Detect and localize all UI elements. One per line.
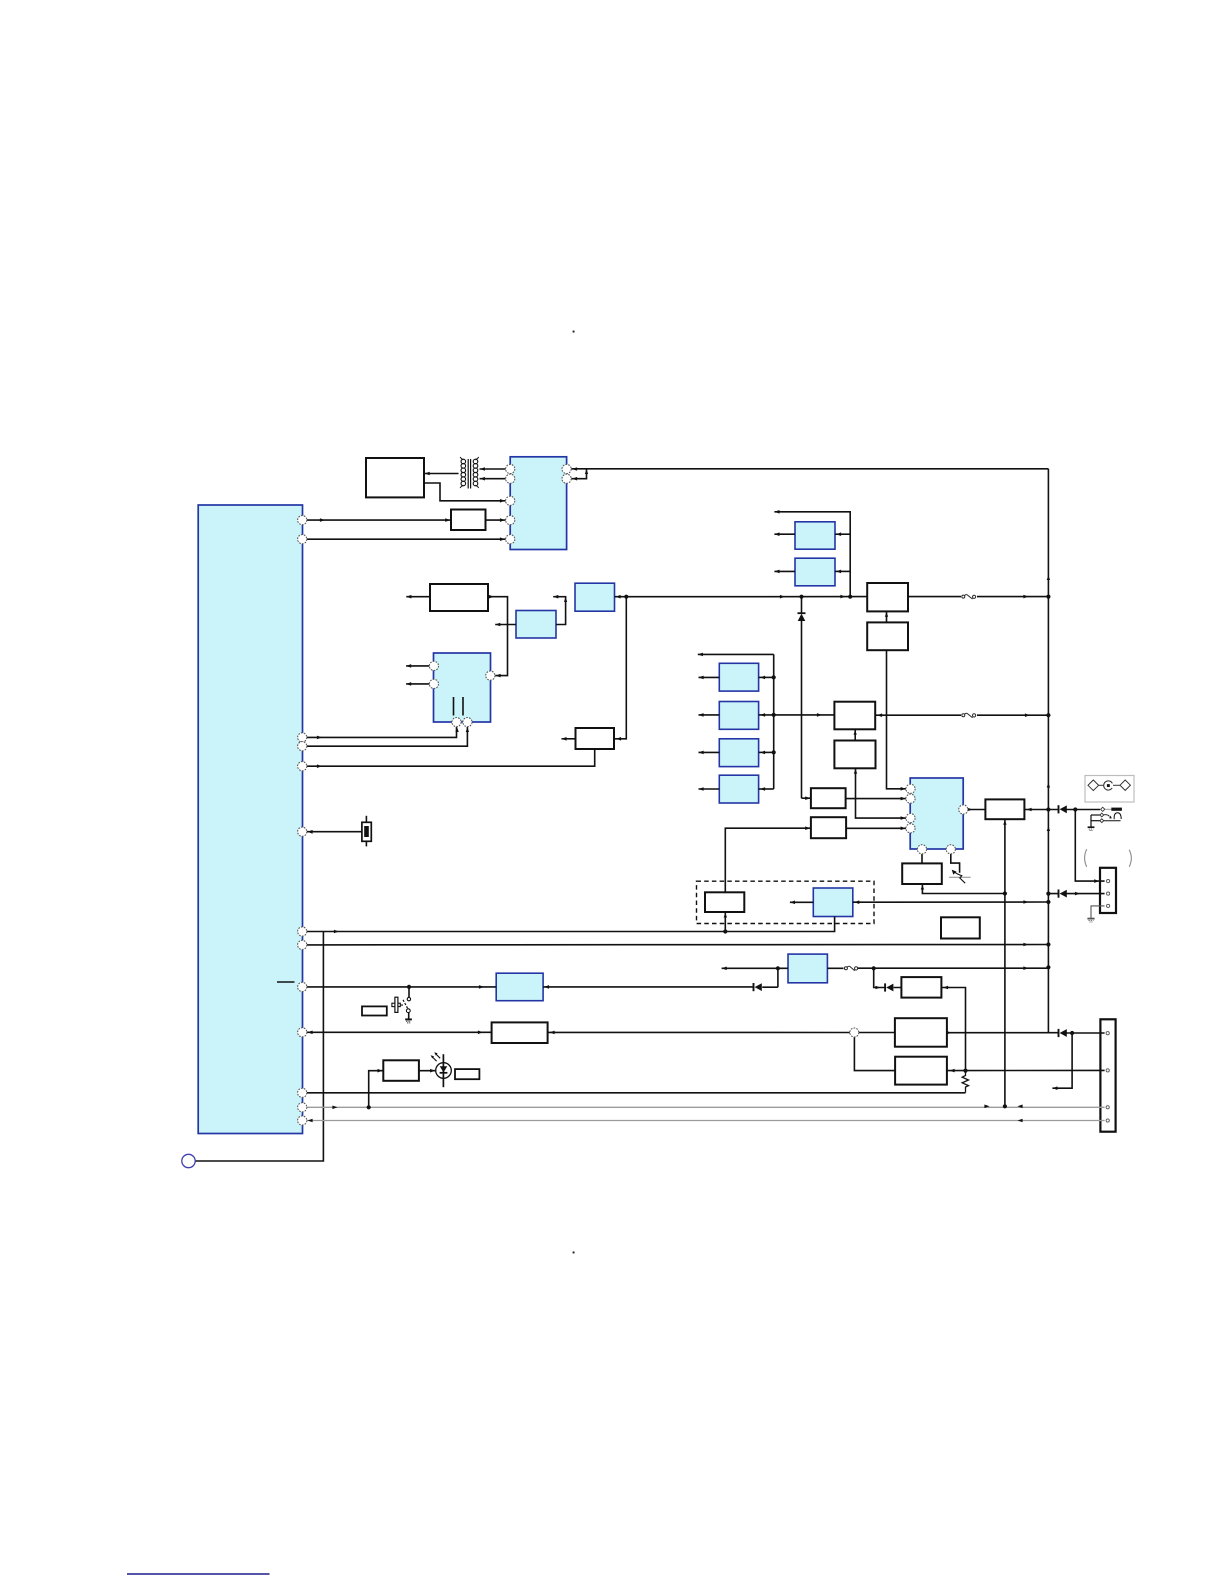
pin U4-B1 [917, 845, 926, 854]
wire WX to jack row [1024, 809, 1100, 811]
wire U1 row746 to U3 bottom pin2 [307, 727, 468, 746]
wire A1 to A2 [556, 597, 566, 625]
wire WX bottom riser [1004, 819, 1006, 1106]
pin U1-4 [298, 742, 307, 751]
arrow into transformer from U2 pin2 [480, 477, 485, 481]
white box WS [362, 1006, 387, 1015]
diode D1 (on vertical, pointing up) [798, 613, 806, 621]
wire switch branch [408, 987, 410, 997]
wire G2 left stub [774, 570, 795, 572]
pin U3-B2 [463, 718, 472, 727]
wire W4 left stub [562, 738, 576, 740]
arrow up into A2 wire [564, 597, 567, 602]
arrow up into WE bottom link [885, 612, 888, 617]
wire grey CN2 pin3 to ground [1091, 906, 1105, 918]
wire B1 right [759, 676, 774, 678]
wire pin U2-L1 to transformer [480, 468, 506, 470]
arrow into transformer from U2 pin1 [480, 467, 485, 471]
arrowheads [308, 467, 1100, 1122]
wire W1 to U2 pin3 [424, 483, 506, 501]
wire U1 row737 to U3 bottom pin1 [307, 727, 457, 738]
arrow into U4 pin1 [901, 787, 906, 791]
wire WY bottom to riser [922, 884, 1005, 894]
arrow into W2 [445, 518, 450, 522]
arrow left stub B3 [699, 751, 704, 755]
arrow on U1 L1-bottom wire [334, 930, 339, 934]
jack J2 plug symbol (top) [1101, 807, 1122, 811]
arrow to rail N1 row [1023, 966, 1028, 970]
arrow on grey wire 1 [332, 1106, 337, 1110]
white box WW [455, 1069, 479, 1079]
stray mark inside U1 [277, 981, 295, 983]
arrow into U2 right pin2 [572, 477, 577, 481]
arrow up into WA bottom link [854, 730, 857, 735]
wire WI to U4 pin2 [846, 798, 907, 800]
amp block A1 (cyan) [516, 611, 556, 639]
pin U3-R1 [486, 671, 495, 680]
pin U1-12 [298, 1103, 307, 1112]
wire WB to U4 pin3 [856, 768, 907, 818]
switch S1 with plug-detect cross [392, 997, 412, 1023]
wire WA-WB link [854, 729, 856, 740]
junction dots [367, 595, 1078, 1110]
CN2 pin circles [1107, 880, 1110, 908]
wire WA to rail (break) [875, 714, 1048, 716]
arrow on grey wire 2 mid [1018, 1119, 1023, 1123]
U3 left stubs [406, 666, 429, 684]
wire top rail horizontal [571, 468, 1048, 470]
arrow into U2 right pin1 [572, 467, 577, 471]
pin U3-L1 [429, 661, 438, 670]
arrow to rail row1 [1023, 595, 1028, 599]
arrow up into WX bottom [1003, 820, 1006, 825]
pin U1-11 [298, 1088, 307, 1097]
wire U4 right pin to WX [968, 809, 986, 811]
arrow into U1 pin WU row [308, 1031, 313, 1035]
blue footer line [127, 1573, 270, 1575]
wire WR to CN1 pin2 [947, 1069, 1105, 1071]
arrow into U4 pin2 [901, 797, 906, 801]
wire U1 pin to W2 [307, 519, 451, 521]
arrow on U1-W2 wire near pin [320, 518, 325, 522]
IC U4 (audio DSP block) [910, 778, 963, 849]
arrow into U3 right pin [496, 674, 501, 678]
white box WM (in dashed area) [705, 892, 744, 912]
white box WJ [811, 817, 846, 838]
wire WE to rail (break) [908, 596, 1048, 598]
arrow into U4 pin4 [901, 827, 906, 831]
wire L1 to rail [853, 901, 1049, 903]
white box WU [492, 1022, 548, 1043]
arrow hook stub left [1052, 1086, 1057, 1090]
registration dot bottom [573, 1252, 575, 1254]
diode D6 (CN1 row, pointing left) [1059, 1029, 1067, 1037]
arrow left stub L1 [790, 901, 795, 905]
arrow into T1 right [544, 985, 549, 989]
wire WP right to riser [941, 988, 965, 1071]
arrow corner WP branch [875, 986, 880, 990]
arrow at WX output [1027, 808, 1032, 812]
arrow on grey wire 1 mid [984, 1105, 989, 1109]
wire jack branch down to CN2 pin1 [1075, 810, 1104, 882]
arrow up into U3 bottom pin1 [455, 728, 458, 733]
arrow out of W3 [489, 595, 494, 599]
arrow up on rail [1047, 576, 1050, 581]
arrow into WA [877, 713, 882, 717]
block G2 (cyan) [795, 558, 835, 586]
pin U3-B1 [452, 718, 461, 727]
wire U1 row766 to W4 [307, 749, 595, 766]
white box WI [811, 788, 846, 808]
wire U1 to T1 [307, 986, 497, 988]
arrow into L1 right [854, 900, 859, 904]
wire switch to ground [408, 1012, 410, 1019]
arrow into CN2 pin1 [1094, 879, 1099, 883]
diode D2 (jack feed, pointing left) [1059, 805, 1067, 813]
wire B-group top stub [698, 653, 774, 655]
parentheses marks [1085, 849, 1132, 867]
white box WV [383, 1060, 419, 1081]
squiggle break symbols [844, 595, 975, 971]
arrow left stub B1 [699, 676, 704, 680]
pin U1-1 [298, 516, 307, 525]
block B2 (cyan) [719, 702, 758, 730]
arrow into WJ [805, 826, 810, 830]
white box WF [867, 622, 908, 650]
wire WE-WF link [886, 611, 888, 622]
arrow up at rail joint [585, 470, 588, 475]
wire branch to WP via diode [874, 968, 902, 987]
pin U1-3 [298, 733, 307, 742]
pin U1-13 [298, 1116, 307, 1125]
arrow on CN2 pin2 wire [1075, 892, 1080, 896]
IC U2 (top block) [510, 457, 566, 550]
arrow into B1 [760, 676, 765, 680]
wire G1 left stub [774, 533, 795, 535]
arrow into U1 crystal pin [308, 830, 313, 834]
pin U4-L2 [906, 794, 915, 803]
pin U2-L2 [506, 474, 515, 483]
pin U4-L1 [906, 784, 915, 793]
legend key box [1085, 776, 1134, 803]
wire T1 right to diode [543, 968, 778, 987]
jack J3 symbol (lower, with lever) [1088, 813, 1122, 831]
white box W3 [430, 584, 488, 611]
arrow left stub W4 [562, 737, 567, 741]
pin U2-R1 [562, 464, 571, 473]
wire A2 to WE [615, 596, 868, 598]
wire diode branch vertical [802, 597, 811, 799]
wire W4 right feed [614, 597, 626, 739]
arrow up into WB bottom [854, 769, 857, 774]
arrow at rail L1 row [1023, 900, 1028, 904]
pin U4-L3 [906, 814, 915, 823]
IC U1 (system controller, main block) [198, 505, 302, 1134]
arrow on grey wire 1 mid2 [1018, 1105, 1023, 1109]
white box WX [985, 799, 1024, 819]
wire corner to WJ [725, 828, 811, 892]
arrow into B3 [760, 751, 765, 755]
arrow into U2 pin3 [500, 499, 505, 503]
wire junction circle to WQ [859, 1032, 895, 1034]
white box W2 [451, 510, 486, 531]
arrow into U4 pin3 [901, 816, 906, 820]
wire rail to CN2 pin2 (diode row) [1048, 893, 1104, 895]
pin U1-2 [298, 535, 307, 544]
crystal X1 [362, 816, 371, 847]
arrow up on rail upper [1047, 783, 1050, 788]
wire WM vertical link [724, 912, 726, 932]
wire U1 to R1 [307, 1092, 966, 1094]
arrow left stub B top [698, 653, 703, 657]
arrow into WV [378, 1069, 383, 1073]
wire U1 pin to U2 pin5 [307, 538, 506, 540]
wire WU to junction circle [548, 1031, 850, 1033]
pin U1-5 [298, 762, 307, 771]
wire WV to LED [419, 1070, 436, 1072]
wire W3 left stub [406, 596, 430, 598]
white box WE [867, 583, 908, 611]
wire U4 bottom pin1 to WY [921, 854, 923, 864]
white box WR [895, 1057, 947, 1085]
wire WQ to CN1 pin1 (diode row) [947, 1032, 1105, 1034]
arrow on U1-T1 wire [479, 985, 484, 989]
arrow left stub W3 [406, 595, 411, 599]
IC U3 (servo block) [434, 653, 491, 722]
arrow left stub G2 [774, 570, 779, 574]
arrow mid WU row [478, 1031, 483, 1035]
arrow into U2 pin4 [500, 518, 505, 522]
arrow up on rail lower [1047, 827, 1050, 832]
arrow into U1 grey pin2 [308, 1119, 313, 1123]
wire W1 to transformer [424, 473, 459, 475]
wire B4 right [759, 788, 774, 790]
pin U1-10 [298, 1028, 307, 1037]
break symbol on N1-rail wire [844, 966, 857, 970]
pin U1-7 [298, 927, 307, 936]
arrow into G2 [836, 570, 841, 574]
wire grey U1 to CN1 pin4 [307, 1120, 1105, 1122]
pin U4-R1 [959, 805, 968, 814]
wire B3 left stub [699, 751, 720, 753]
arrow out of U4 right pin [967, 808, 972, 812]
pin U2-R2 [562, 474, 571, 483]
break symbol on WA-rail wire [962, 713, 976, 717]
white box WA [834, 702, 875, 730]
arrow left stub B4 [699, 787, 704, 791]
white box W4 [576, 728, 615, 749]
arrow into B2 [760, 713, 765, 717]
white box WY [902, 863, 942, 884]
wire G2 right [835, 570, 850, 572]
block B3 (cyan) [719, 739, 758, 767]
arrow to rail bus row [1023, 943, 1028, 947]
arrow left stub N1 [722, 967, 727, 971]
pin U2-L5 [506, 535, 515, 544]
arrow left stub G bus [774, 510, 779, 514]
pin U1-9 [298, 982, 307, 991]
wire B4 left stub [699, 788, 720, 790]
transformer T901 [460, 457, 479, 489]
pin U3-L2 [429, 679, 438, 688]
wires: black nets [195, 469, 1104, 1161]
pin U2-L4 [506, 516, 515, 525]
diode D5 (WP row, pointing left) [885, 983, 893, 991]
pin U1-8 [298, 940, 307, 949]
pin circles U1 [298, 464, 968, 1125]
block B4 (cyan) [719, 775, 758, 803]
pin U1-6 [298, 827, 307, 836]
arrow into W4 right [616, 737, 621, 741]
arrow up into WM bottom [724, 913, 727, 918]
wire stub at A2 input [553, 596, 566, 598]
arrow into WP right [943, 986, 948, 990]
wire WF to U4 pin1 [887, 650, 907, 789]
wire A1 left stub [495, 624, 516, 626]
wire U4 bottom pin2 jog [951, 854, 960, 873]
grey wires [307, 906, 1105, 1121]
wire diode hook stub [1052, 1033, 1072, 1088]
arrow into U2 pin5 [500, 537, 505, 541]
wire L1 bottom to U1 [307, 917, 835, 932]
wire U3-L1 stub [406, 665, 429, 667]
LED D7 with rays [431, 1052, 452, 1087]
arrow to rail row2 [1025, 713, 1030, 717]
wire N1 left stub [722, 967, 788, 969]
wire pin U2-L2 to transformer [480, 478, 506, 480]
wire U1 to rail bus [307, 944, 1049, 946]
diode D4 (T1 row, pointing left) [754, 983, 762, 991]
arrow mid B2-WA [817, 713, 822, 717]
arrow into WI [805, 796, 810, 800]
arrow up into U3 bottom pin2 [466, 728, 469, 733]
arrow left stub A1 [495, 623, 500, 627]
wire L1 left stub [790, 901, 813, 903]
white box W1 (top left) [366, 458, 424, 497]
junction node circle on WU row [850, 1028, 859, 1037]
arrow on A2 output [616, 595, 621, 599]
connector CN1 (right bottom) [1100, 1019, 1115, 1131]
arrow mid wire to WE [780, 595, 785, 599]
white box WO [941, 917, 980, 938]
block N1 (cyan) [788, 954, 827, 983]
white box WQ [895, 1018, 947, 1046]
wire B1 left stub [699, 676, 720, 678]
arrow into WR [950, 1069, 955, 1073]
arrow at WQ output [946, 1031, 951, 1035]
wire W2 to U2 pin4 [486, 519, 506, 521]
dashed function box [697, 881, 875, 923]
pin U4-B2 [946, 845, 955, 854]
registration dot top [573, 331, 575, 333]
arrow into B4 [760, 787, 765, 791]
mark lines inside U3 [454, 697, 464, 716]
arrow left stub U3-L2 [406, 682, 411, 686]
wire B2 to WA [759, 714, 835, 716]
wire junction circle down to WR [854, 1037, 895, 1071]
block B1 (cyan) [719, 663, 758, 691]
pin U2-L1 [506, 464, 515, 473]
arrow left stub B2 [699, 713, 704, 717]
arrow before WE [840, 595, 845, 599]
wire B bus vertical [773, 654, 775, 789]
pin U2-L3 [506, 496, 515, 505]
block G1 (cyan) [795, 522, 835, 549]
ground GND2 (CN2) [1087, 919, 1094, 922]
block L1 (cyan, in dashed area) [813, 888, 853, 917]
connector CN2 (right mid) [1100, 868, 1116, 913]
wire W3 to U3 right pin [488, 597, 508, 676]
wire right rail vertical [1047, 469, 1049, 1033]
pin U4-L4 [906, 824, 915, 833]
arrow into G1 [836, 532, 841, 536]
wire B2 left stub [699, 714, 720, 716]
wire G1 right [835, 533, 850, 535]
arrow into LED [430, 1069, 435, 1073]
wire N1 right to rail (break) [827, 967, 1048, 969]
diode D3 (CN2 row, pointing left) [1059, 890, 1067, 898]
CN1 pin circles [1106, 1032, 1109, 1123]
wire G bus [774, 512, 850, 597]
variable adjust symbol VR1 [949, 870, 971, 884]
block T1 (cyan) [496, 973, 543, 1001]
arrow into W1 right edge [425, 472, 430, 476]
arrow left stub A2 [553, 595, 558, 599]
wire LED feed riser [369, 1071, 384, 1108]
white box WB [834, 741, 875, 769]
wire U1 crystal pin [307, 831, 362, 833]
arrow into WU right [550, 1031, 555, 1035]
break symbol on WE-rail wire [962, 595, 976, 599]
arrow left stub G1 [774, 532, 779, 536]
wire U3-L2 stub [406, 683, 429, 685]
white box WP [901, 977, 941, 998]
wire WJ to U4 pin4 [846, 827, 906, 829]
resistor R1 zigzag vertical [962, 1071, 968, 1093]
wire U2 right pin2 riser [571, 469, 586, 479]
node J1 (blue circle) [182, 1154, 195, 1167]
wire U1 to WU row [307, 1031, 492, 1033]
arrow up into WY bottom [921, 885, 924, 890]
arrow on U1 row737 [317, 736, 322, 740]
arrow left stub U3-L1 [406, 664, 411, 668]
amp block A2 (cyan) [575, 583, 615, 611]
arrow on U1 row766 [317, 764, 322, 768]
wire blue circle to bus riser [195, 932, 323, 1162]
wire B3 right [759, 751, 774, 753]
wire grey U1 to CN1 pin3 [307, 1106, 1105, 1108]
